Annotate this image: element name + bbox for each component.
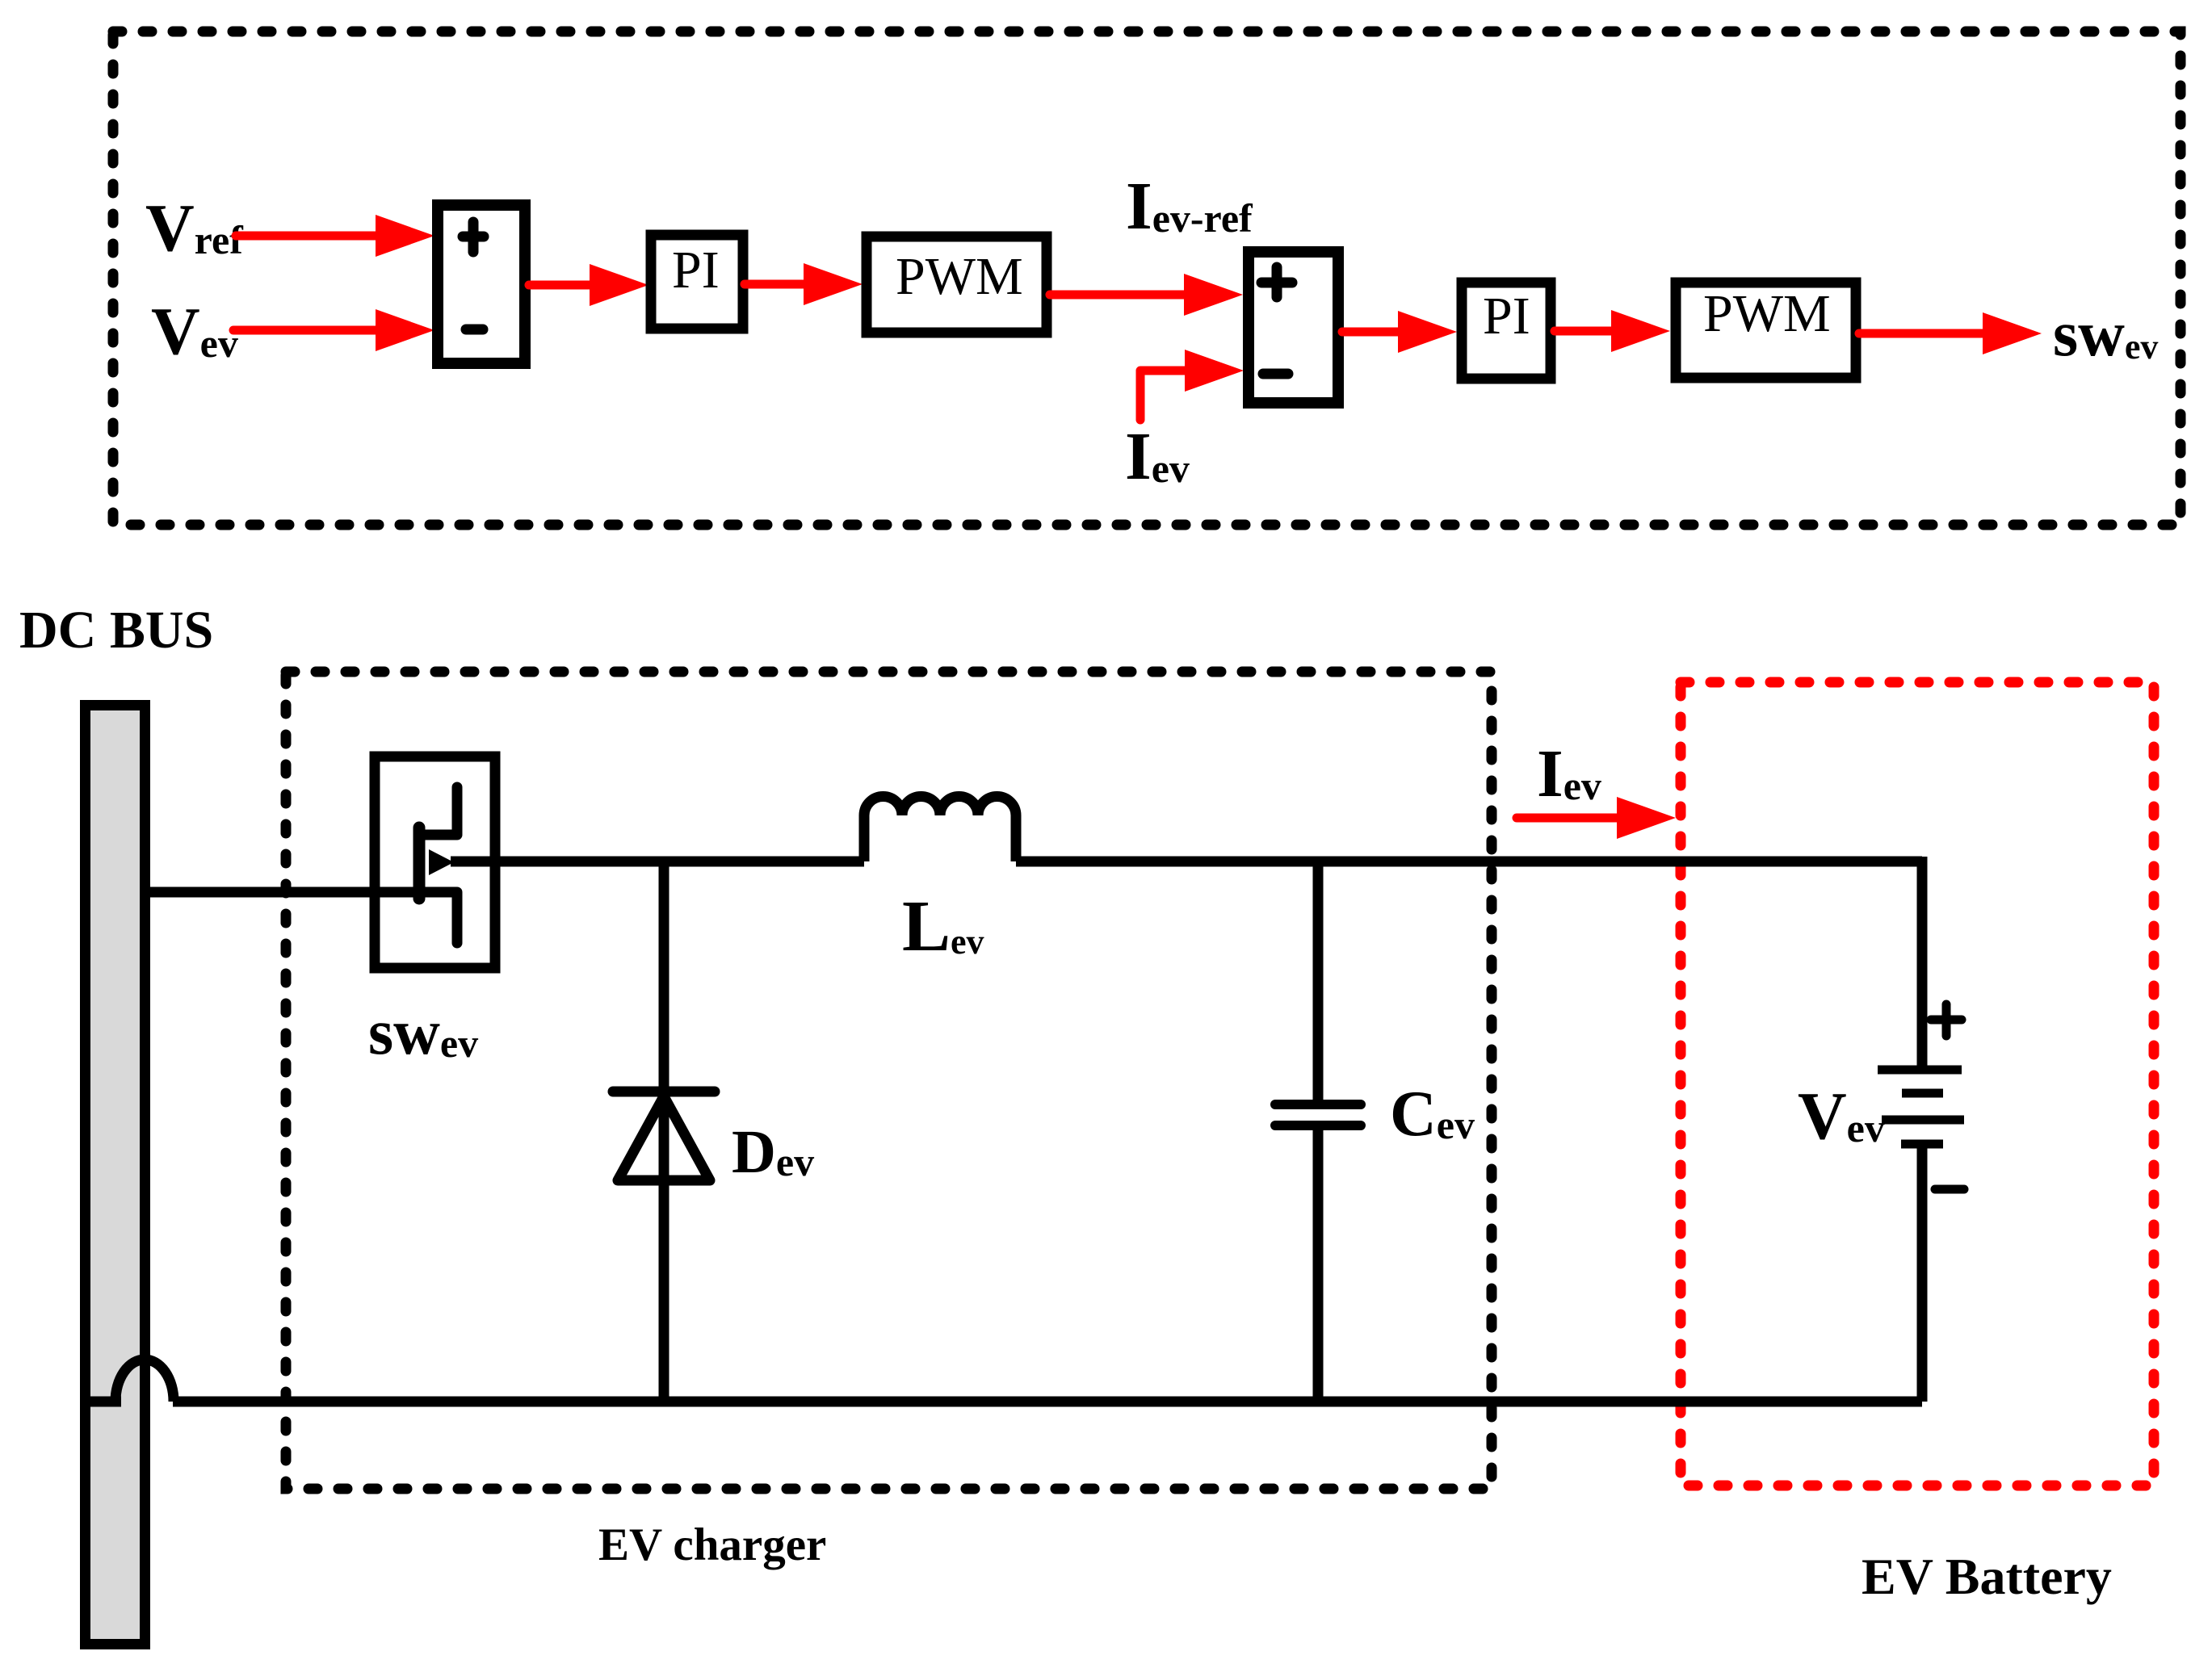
svg-text:PWM: PWM [896,247,1023,306]
inductor Lev [864,796,1016,861]
wire switch to inductor [451,857,864,867]
wire PWM2 output arrow [1859,329,1983,338]
wire Iev arrow circuit [1517,814,1617,823]
svg-text:DC BUS: DC BUS [19,601,213,660]
wire bus to switch [145,887,457,898]
EV Battery dashed box [1681,682,2154,1486]
svg-text:EV Battery: EV Battery [1862,1548,2112,1605]
PI block PI2 [1462,283,1551,379]
wire Vref arrow [236,232,380,241]
summing junction S2 [1249,252,1338,403]
PWM block PWM2 [1676,283,1856,378]
wire S2 to PI2 arrow [1342,328,1400,337]
DC bus bar [86,706,145,1645]
controller dashed box [113,31,2181,525]
bottom wire [90,1397,121,1407]
wire S1 to PI1 arrow [529,281,592,290]
diode Dev [659,857,669,1402]
battery Vev [1917,857,1928,1066]
svg-text:PI: PI [1483,287,1530,346]
wire PI2 to PWM2 arrow [1555,327,1613,336]
capacitor Cev [1313,857,1324,1100]
wire PI1 to PWM1 arrow [745,280,805,289]
wire inductor to battery [1016,857,1922,867]
PWM block PWM1 [867,237,1047,333]
wire PWM1 to S2 arrow [1050,291,1186,300]
svg-text:PWM: PWM [1703,284,1831,343]
PI block PI1 [651,235,743,329]
svg-text:EV charger: EV charger [598,1519,826,1570]
transistor swev [375,756,495,968]
summing junction S1 [438,205,525,363]
EV charger dashed box [286,672,1492,1489]
wire Iev feedback arrow [1140,371,1186,420]
svg-text:PI: PI [672,241,720,300]
wire Vev arrow [233,326,380,335]
